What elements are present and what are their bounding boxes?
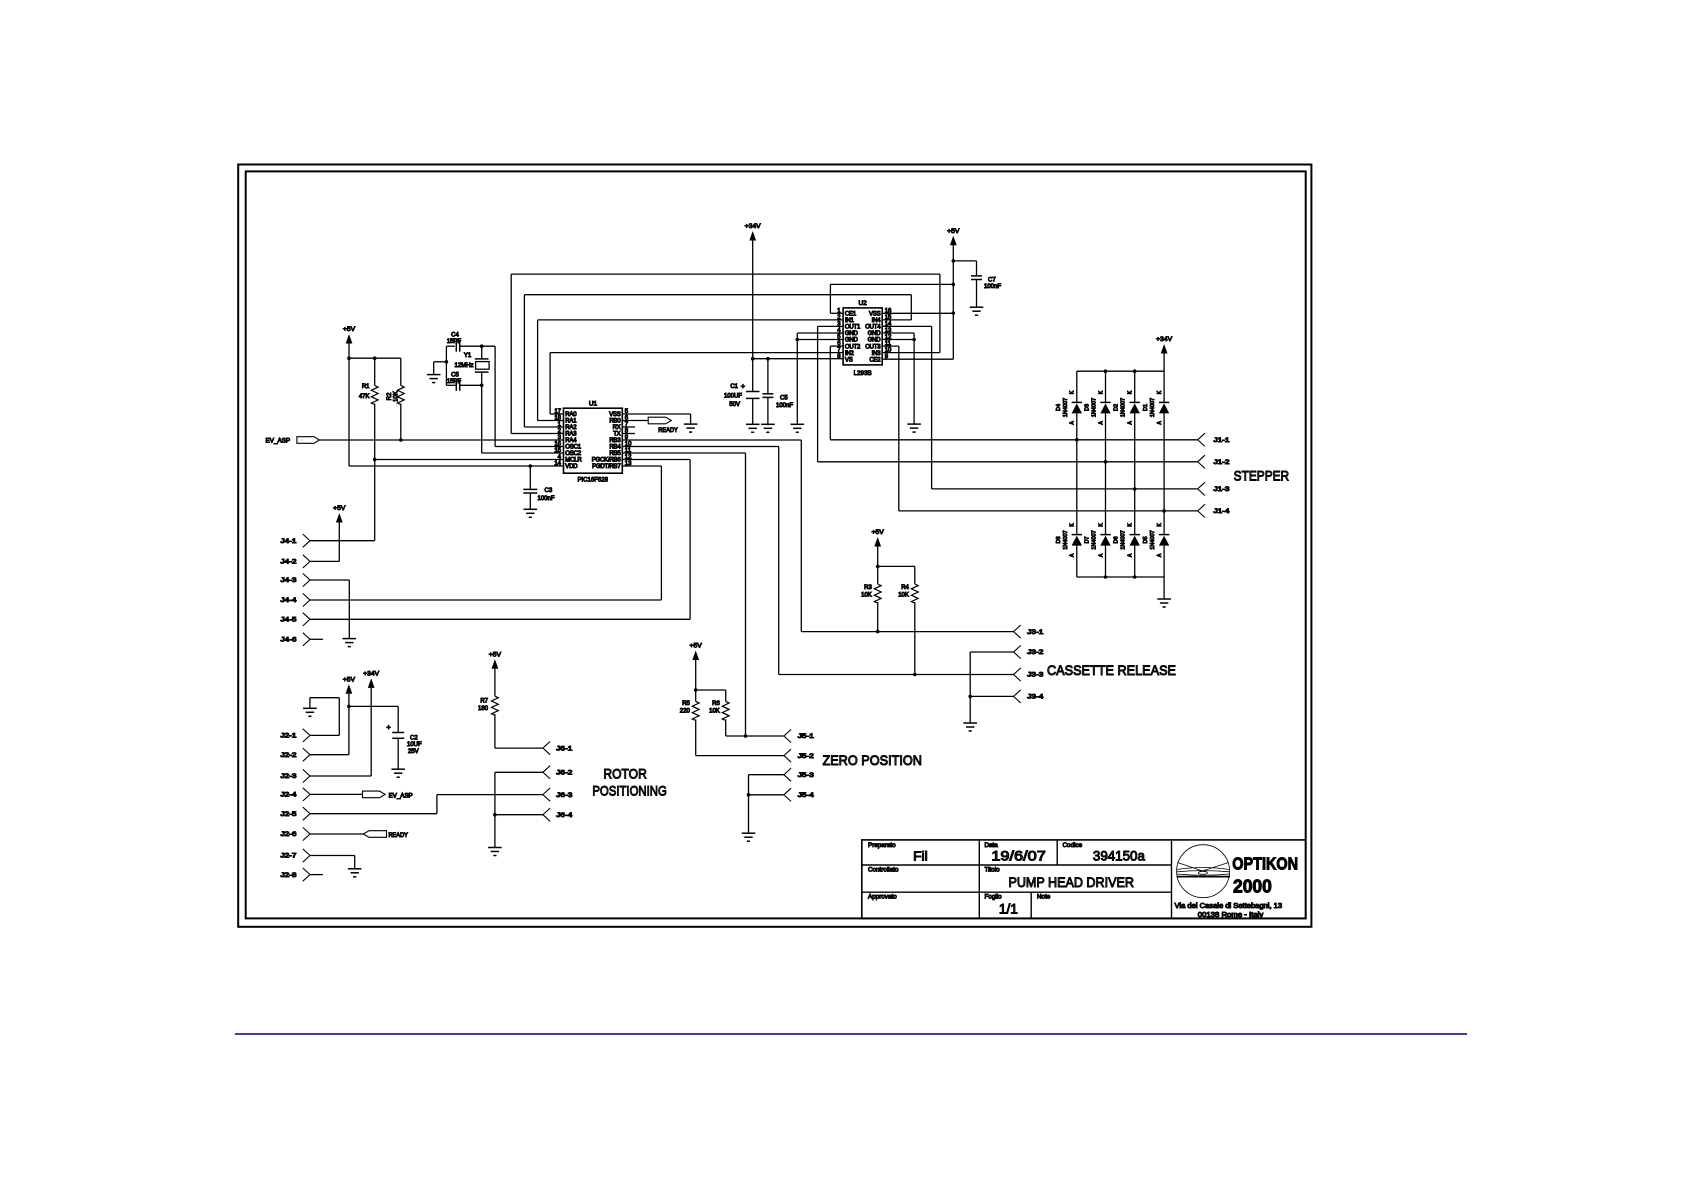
- svg-text:Foglio: Foglio: [985, 894, 1003, 901]
- svg-text:220: 220: [680, 709, 691, 715]
- svg-text:OUT4: OUT4: [865, 325, 881, 331]
- svg-text:D2: D2: [1114, 404, 1120, 411]
- svg-text:D5: D5: [1143, 536, 1149, 543]
- svg-text:VS: VS: [845, 357, 853, 363]
- svg-text:+34V: +34V: [1156, 336, 1173, 343]
- svg-text:J5-2: J5-2: [798, 753, 815, 760]
- svg-text:J3-4: J3-4: [1027, 694, 1044, 701]
- svg-text:180: 180: [478, 706, 489, 712]
- svg-text:READY: READY: [388, 833, 408, 839]
- svg-text:J4-3: J4-3: [281, 577, 298, 584]
- svg-text:10K: 10K: [861, 593, 872, 599]
- svg-text:+5V: +5V: [489, 652, 502, 659]
- svg-text:10UF: 10UF: [407, 742, 422, 748]
- svg-text:RB4: RB4: [609, 445, 621, 451]
- svg-text:Approvato: Approvato: [868, 894, 897, 901]
- svg-text:+5V: +5V: [343, 326, 356, 333]
- svg-text:J6-4: J6-4: [556, 812, 573, 819]
- svg-text:J1-1: J1-1: [1214, 437, 1231, 444]
- svg-text:1N4007: 1N4007: [1092, 530, 1098, 549]
- svg-text:J3-3: J3-3: [1027, 672, 1044, 679]
- svg-text:1N4007: 1N4007: [1063, 530, 1069, 549]
- svg-text:Preparato: Preparato: [868, 842, 896, 849]
- svg-text:J6-1: J6-1: [556, 745, 573, 752]
- svg-text:RA0: RA0: [565, 412, 577, 418]
- svg-text:394150a: 394150a: [1093, 849, 1145, 864]
- svg-text:CASSETTE RELEASE: CASSETTE RELEASE: [1047, 662, 1176, 678]
- svg-text:1N4007: 1N4007: [1092, 398, 1098, 417]
- svg-text:RA4: RA4: [565, 438, 577, 444]
- svg-text:J6-2: J6-2: [556, 770, 573, 777]
- svg-text:Y1: Y1: [464, 353, 472, 359]
- svg-text:10K: 10K: [898, 593, 909, 599]
- svg-text:Via del Casale di Settebagni,: Via del Casale di Settebagni, 13: [1175, 903, 1283, 910]
- svg-text:RA2: RA2: [565, 425, 577, 431]
- svg-text:RB3: RB3: [609, 438, 621, 444]
- svg-text:PGDT/RB7: PGDT/RB7: [592, 464, 621, 470]
- svg-text:IN1: IN1: [845, 318, 855, 324]
- svg-text:PIC16F628: PIC16F628: [577, 477, 608, 484]
- svg-text:100UF: 100UF: [724, 393, 742, 399]
- svg-text:1N4007: 1N4007: [1121, 530, 1127, 549]
- svg-text:D4: D4: [1056, 404, 1062, 411]
- svg-text:1N4007: 1N4007: [1150, 398, 1156, 417]
- svg-text:TX: TX: [613, 432, 620, 438]
- svg-text:+5V: +5V: [947, 228, 960, 235]
- svg-text:C3: C3: [545, 488, 553, 494]
- svg-text:R4: R4: [901, 585, 909, 591]
- svg-text:PUMP HEAD DRIVER: PUMP HEAD DRIVER: [1008, 874, 1134, 890]
- svg-text:J2-1: J2-1: [281, 733, 298, 740]
- svg-text:J5-1: J5-1: [798, 733, 815, 740]
- svg-text:GND: GND: [868, 338, 882, 344]
- svg-text:15PF: 15PF: [447, 379, 462, 385]
- svg-text:RX: RX: [613, 425, 621, 431]
- svg-text:GND: GND: [845, 338, 859, 344]
- svg-text:CE2: CE2: [869, 357, 881, 363]
- svg-text:OUT3: OUT3: [865, 344, 881, 350]
- svg-text:R3: R3: [864, 585, 872, 591]
- svg-text:RB5: RB5: [609, 451, 621, 457]
- svg-text:C2: C2: [410, 736, 418, 742]
- svg-text:Fil: Fil: [913, 849, 928, 864]
- svg-text:J2-4: J2-4: [281, 792, 298, 799]
- svg-text:10K: 10K: [394, 391, 400, 402]
- svg-text:J1-3: J1-3: [1214, 486, 1231, 493]
- svg-text:100nF: 100nF: [776, 403, 793, 409]
- svg-text:RA1: RA1: [565, 419, 577, 425]
- svg-text:J1-2: J1-2: [1214, 459, 1231, 466]
- svg-text:R7: R7: [480, 699, 488, 705]
- svg-text:+: +: [741, 382, 746, 391]
- svg-text:Note: Note: [1037, 894, 1051, 901]
- svg-text:J2-6: J2-6: [281, 831, 298, 838]
- svg-text:D7: D7: [1085, 536, 1091, 543]
- svg-text:+5V: +5V: [333, 505, 346, 512]
- svg-text:OSC1: OSC1: [565, 445, 581, 451]
- svg-text:J4-4: J4-4: [281, 597, 298, 604]
- svg-text:R6: R6: [712, 701, 720, 707]
- svg-text:J1-4: J1-4: [1214, 508, 1231, 515]
- svg-text:+34V: +34V: [363, 671, 380, 678]
- svg-text:C5: C5: [451, 373, 459, 379]
- svg-text:R1: R1: [362, 384, 370, 390]
- svg-text:J4-2: J4-2: [281, 559, 298, 566]
- svg-text:EV_ASP: EV_ASP: [389, 793, 413, 799]
- svg-text:1/1: 1/1: [999, 902, 1018, 917]
- svg-text:+5V: +5V: [343, 676, 356, 683]
- svg-text:10K: 10K: [709, 709, 720, 715]
- svg-text:MCLR: MCLR: [565, 458, 582, 464]
- svg-text:CE1: CE1: [845, 312, 857, 318]
- svg-text:+5V: +5V: [690, 643, 703, 650]
- svg-text:+34V: +34V: [745, 223, 762, 230]
- svg-text:J5-3: J5-3: [798, 772, 815, 779]
- svg-text:J2-2: J2-2: [281, 752, 298, 759]
- svg-text:EV_ASP: EV_ASP: [266, 438, 291, 444]
- svg-text:PGCK/RB6: PGCK/RB6: [592, 458, 622, 464]
- svg-text:R5: R5: [682, 701, 690, 707]
- svg-text:R2: R2: [387, 392, 393, 400]
- svg-text:1N4007: 1N4007: [1063, 398, 1069, 417]
- svg-text:U2: U2: [858, 300, 867, 307]
- svg-text:+5V: +5V: [872, 529, 885, 536]
- svg-text:VSS: VSS: [609, 412, 621, 418]
- svg-text:12MHz: 12MHz: [454, 363, 473, 369]
- svg-text:D1: D1: [1143, 404, 1149, 411]
- svg-text:OUT1: OUT1: [845, 325, 861, 331]
- svg-text:1N4007: 1N4007: [1150, 530, 1156, 549]
- svg-text:2000: 2000: [1233, 876, 1272, 897]
- svg-text:VSS: VSS: [869, 312, 881, 318]
- svg-text:C4: C4: [451, 333, 459, 339]
- svg-text:RA3: RA3: [565, 432, 577, 438]
- svg-text:15PF: 15PF: [447, 339, 462, 345]
- svg-text:J2-3: J2-3: [281, 773, 298, 780]
- svg-text:J4-1: J4-1: [281, 538, 298, 545]
- svg-text:C1: C1: [730, 384, 738, 390]
- svg-text:J4-5: J4-5: [281, 617, 298, 624]
- svg-text:25V: 25V: [408, 749, 419, 755]
- svg-text:D3: D3: [1085, 404, 1091, 411]
- svg-text:J2-7: J2-7: [281, 853, 298, 860]
- svg-text:47K: 47K: [359, 394, 370, 400]
- svg-text:OPTIKON: OPTIKON: [1232, 854, 1298, 874]
- svg-text:J3-1: J3-1: [1027, 629, 1044, 636]
- svg-text:C5: C5: [780, 396, 788, 402]
- svg-text:POSITIONING: POSITIONING: [592, 783, 667, 799]
- svg-text:D6: D6: [1114, 536, 1120, 543]
- svg-text:STEPPER: STEPPER: [1234, 467, 1290, 483]
- svg-text:J3-2: J3-2: [1027, 649, 1044, 656]
- svg-text:J6-3: J6-3: [556, 792, 573, 799]
- svg-text:00138 Rome - Italy: 00138 Rome - Italy: [1198, 912, 1264, 919]
- svg-text:GND: GND: [845, 331, 859, 337]
- svg-text:VDD: VDD: [565, 464, 578, 470]
- svg-text:GND: GND: [868, 331, 882, 337]
- svg-text:RB0: RB0: [609, 419, 621, 425]
- svg-text:19/6/07: 19/6/07: [991, 849, 1046, 864]
- svg-text:U1: U1: [589, 401, 598, 408]
- svg-text:100nF: 100nF: [984, 284, 1001, 290]
- svg-text:L293B: L293B: [854, 370, 872, 377]
- svg-text:J2-8: J2-8: [281, 872, 298, 879]
- svg-text:IN3: IN3: [872, 351, 882, 357]
- svg-text:OUT2: OUT2: [845, 344, 861, 350]
- svg-text:ZERO POSITION: ZERO POSITION: [822, 752, 922, 768]
- svg-text:1N4007: 1N4007: [1121, 398, 1127, 417]
- svg-text:ROTOR: ROTOR: [603, 765, 647, 781]
- svg-text:50V: 50V: [729, 402, 740, 408]
- svg-text:100nF: 100nF: [538, 496, 555, 502]
- svg-text:Titolo: Titolo: [985, 867, 1001, 874]
- svg-text:OSC2: OSC2: [565, 451, 581, 457]
- svg-text:J5-4: J5-4: [798, 792, 815, 799]
- svg-text:IN2: IN2: [845, 351, 855, 357]
- svg-text:Controllato: Controllato: [868, 867, 899, 874]
- svg-text:C7: C7: [988, 278, 996, 284]
- svg-text:IN4: IN4: [872, 318, 882, 324]
- svg-text:J4-6: J4-6: [281, 637, 298, 644]
- svg-text:J2-5: J2-5: [281, 811, 298, 818]
- svg-text:+: +: [386, 722, 391, 731]
- svg-text:D8: D8: [1056, 536, 1062, 543]
- svg-text:READY: READY: [658, 428, 678, 434]
- svg-text:Codice: Codice: [1063, 842, 1083, 849]
